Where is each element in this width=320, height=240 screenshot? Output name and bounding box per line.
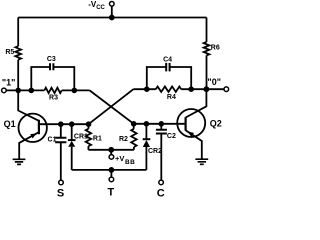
- svg-text:+V: +V: [115, 154, 124, 163]
- wire cross-coupling node0 to Q1 base: [89, 89, 134, 124]
- wire Q2 base row: [134, 123, 186, 125]
- wire C3 loop: [31, 67, 74, 90]
- svg-text:C2: C2: [167, 133, 176, 140]
- terminal C: [159, 180, 164, 185]
- junction dot base row / R2: [131, 121, 137, 127]
- svg-text:R5: R5: [5, 49, 14, 56]
- terminal "0" output: [224, 87, 229, 92]
- wire C4 loop: [147, 67, 191, 89]
- svg-text:Q2: Q2: [210, 118, 222, 128]
- junction dot base row / R1: [86, 121, 92, 127]
- resistor R3: [44, 88, 61, 93]
- wire Q1 base row: [39, 123, 89, 125]
- svg-text:C1: C1: [48, 137, 57, 144]
- svg-text:C3: C3: [47, 56, 56, 63]
- wire right rail down to R6: [206, 18, 208, 43]
- wire cross-coupling node1 to Q2 base: [90, 90, 134, 123]
- wire trigger T bus: [72, 169, 147, 171]
- svg-text:R3: R3: [49, 94, 58, 101]
- diode CR2: [143, 124, 151, 170]
- wire +Vbb bus: [88, 149, 133, 151]
- wire R5 to node 1: [17, 60, 19, 91]
- junction dot T tap: [109, 167, 115, 173]
- resistor R1: [86, 124, 91, 150]
- wire node 0 row: [133, 88, 224, 90]
- diode CR1: [68, 124, 76, 170]
- svg-text:"1": "1": [2, 77, 16, 87]
- junction dot base row / C1: [58, 121, 64, 127]
- junction dot +Vbb tap: [108, 147, 114, 153]
- terminal +Vbb: [110, 150, 112, 155]
- resistor R2: [131, 124, 136, 150]
- svg-text:T: T: [108, 187, 115, 199]
- terminal "1" output: [2, 88, 7, 93]
- junction dot base row / CR2: [144, 121, 150, 127]
- terminal S: [59, 180, 64, 185]
- junction dot node1/C3 right: [72, 88, 78, 94]
- junction dot node0/R6: [204, 86, 210, 92]
- transistor Q1: [18, 90, 47, 158]
- resistor R5: [15, 46, 21, 59]
- svg-text:BB: BB: [125, 159, 135, 166]
- svg-text:"0": "0": [207, 77, 221, 87]
- junction dot node1/C3 left: [29, 88, 35, 94]
- terminal T: [110, 170, 112, 177]
- resistor R4: [156, 87, 181, 92]
- svg-text:CR2: CR2: [148, 148, 162, 155]
- capacitor C2: [156, 124, 167, 180]
- svg-text:R2: R2: [119, 136, 128, 143]
- wire left rail down to R5: [17, 18, 19, 47]
- junction dot node0/C4 right: [188, 86, 194, 92]
- ground below Q1: [13, 159, 26, 164]
- svg-text:C4: C4: [163, 56, 172, 63]
- capacitor C1: [55, 124, 66, 180]
- svg-text:Q1: Q1: [4, 119, 16, 129]
- svg-text:R6: R6: [211, 45, 220, 52]
- svg-text:S: S: [57, 188, 64, 200]
- wire R6 to node 0: [206, 55, 208, 89]
- svg-text:C: C: [157, 188, 165, 200]
- junction dot base row / CR1: [69, 121, 75, 127]
- junction dot at -Vcc tap: [109, 15, 115, 21]
- svg-text:R4: R4: [167, 94, 176, 101]
- resistor R6: [204, 42, 210, 55]
- capacitor C3: [50, 63, 53, 70]
- svg-text:R1: R1: [93, 135, 102, 142]
- junction dot node1/R5: [15, 88, 21, 94]
- junction dot base row / C2: [159, 121, 165, 127]
- svg-text:CC: CC: [96, 5, 105, 11]
- capacitor C4: [166, 63, 169, 72]
- junction dot node0/C4 left: [144, 86, 150, 92]
- wire top supply rail: [18, 17, 206, 19]
- transistor Q2: [177, 89, 206, 158]
- wire node 1 row: [6, 89, 90, 91]
- ground below Q2: [195, 159, 208, 164]
- terminal -Vcc: [110, 2, 115, 18]
